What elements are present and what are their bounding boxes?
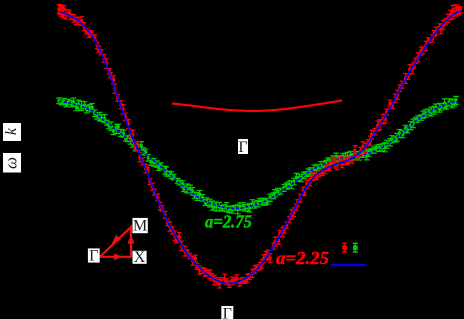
inset arrow M->Gamma: [112, 235, 121, 244]
label box: rotated k (y-axis): [3, 123, 21, 141]
green dataset fit line (blue, beaded through markers): [59, 101, 458, 208]
inset label Gamma: [88, 248, 100, 262]
label box: rotated omega (y-axis): [3, 153, 21, 173]
svg-text:Γ: Γ: [238, 139, 247, 156]
inset arrow Gamma->X: [114, 253, 123, 260]
Gamma label under short branch: [238, 139, 248, 154]
red dataset error bars: [57, 5, 463, 288]
svg-text:X: X: [134, 249, 146, 266]
red dataset fit line (blue): [60, 11, 462, 284]
inset label X: [133, 251, 147, 264]
short shallow red branch near top: [172, 101, 342, 112]
svg-text:M: M: [133, 218, 147, 235]
Gamma label bottom: [221, 306, 233, 319]
green dataset error bars: [56, 96, 459, 213]
svg-text:a=2.25: a=2.25: [276, 248, 329, 268]
red dataset point squares: [57, 8, 462, 286]
svg-text:a=2.75: a=2.75: [205, 212, 252, 232]
legend green errorbar symbol: [353, 243, 358, 252]
legend red errorbar symbol: [342, 243, 347, 252]
legend blue fit-line sample: [331, 264, 366, 267]
inset arrow X->M: [127, 235, 134, 244]
inset label M: [133, 218, 148, 233]
svg-text:k: k: [3, 127, 20, 135]
inset triangle path Gamma-X-M: [100, 227, 131, 257]
svg-text:Γ: Γ: [223, 306, 232, 319]
svg-text:ω: ω: [1, 157, 20, 169]
red end-point clusters: [57, 5, 461, 17]
svg-text:Γ: Γ: [89, 248, 98, 265]
green dataset point squares: [57, 99, 457, 212]
